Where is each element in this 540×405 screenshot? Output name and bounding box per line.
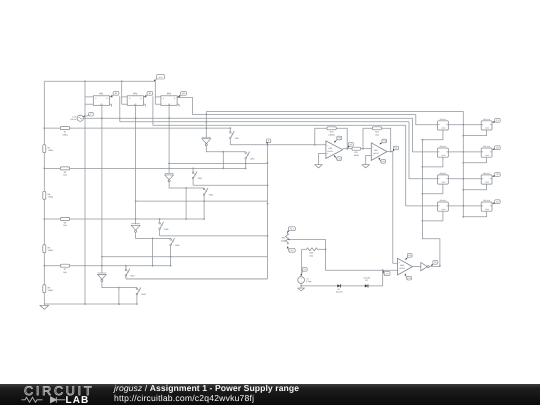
wire relay K1 bottom loop (422, 130, 443, 141)
wire block2 drop to next tap (185, 188, 187, 220)
wire relay K1 to K5 (448, 124, 481, 126)
flip-flop FF3 (161, 92, 177, 105)
tag pot top (287, 227, 295, 233)
wire SW1 out (230, 139, 267, 145)
svg-text:2 Vpp: 2 Vpp (306, 280, 311, 283)
svg-text:-15: -15 (382, 160, 385, 163)
relay K2 (438, 145, 449, 157)
resistor R4 (43, 191, 54, 199)
switch SW3 (192, 171, 202, 180)
wire pot wiper to comparator (291, 240, 398, 272)
wire OA1 + input (319, 154, 326, 164)
svg-text:2.49kΩ: 2.49kΩ (328, 133, 335, 136)
svg-text:Q1: Q1 (496, 119, 499, 122)
wire block4 drop to next tap (118, 288, 120, 305)
svg-text:1.8kΩ: 1.8kΩ (48, 149, 54, 152)
switch SW4 (203, 188, 213, 197)
wire relay K3 bottom loop (422, 184, 443, 195)
tag pot bottom (287, 246, 295, 252)
svg-text:B1: B1 (115, 92, 117, 95)
wire summing to OA1 inverting input (268, 144, 326, 146)
svg-text:RELAY4: RELAY4 (440, 199, 446, 202)
wire SW4 out (135, 195, 268, 219)
wire relay K8 bottom loop (462, 211, 486, 218)
tag OA3 V- (405, 274, 412, 280)
svg-text:B2: B2 (149, 92, 151, 95)
inverter X1 (202, 137, 211, 146)
svg-text:1.8kΩ: 1.8kΩ (48, 196, 54, 199)
wire tap at y=265.7 (43, 265, 171, 267)
wire relay K6 bottom loop (462, 157, 486, 164)
svg-text:1N4148: 1N4148 (363, 277, 370, 280)
resistor R7 (60, 264, 69, 274)
power tag +5V top (154, 75, 165, 82)
wire relay K2 bottom loop (422, 157, 443, 168)
resistor R22 (372, 127, 381, 137)
tag FF1 output (111, 92, 119, 97)
wire OA2 feedback right (382, 128, 392, 152)
voltage source V1 (298, 277, 311, 284)
svg-text:CLK: CLK (72, 115, 77, 118)
tag OA3 V+ (405, 254, 412, 260)
wire FF2 input drops (122, 81, 128, 104)
tag Vin (383, 271, 390, 276)
svg-text:A1: A1 (350, 143, 352, 146)
svg-text:LAB: LAB (66, 395, 90, 405)
wire tap at y=219.0 (43, 218, 205, 220)
svg-text:RELAY6: RELAY6 (483, 145, 489, 148)
wire FF2 tag drop (152, 96, 154, 125)
flip-flop FF2 (127, 92, 143, 105)
flip-flop FF1 (93, 92, 109, 105)
resistor R20 (327, 127, 336, 137)
wire block1 feed vertical (205, 112, 207, 138)
relay K5 (481, 118, 492, 130)
ground V1 (298, 287, 304, 291)
wire inverter X1 out (206, 146, 245, 153)
svg-text:RELAY7: RELAY7 (483, 172, 489, 175)
buffer U1 (421, 262, 430, 270)
relay K3 (438, 172, 449, 184)
ground OA1 (315, 164, 322, 168)
wire R21 to OA2 (361, 148, 372, 150)
wire long vertical x=85 (84, 81, 86, 304)
wire block1 drop to next tap (222, 152, 224, 170)
svg-text:-15: -15 (408, 277, 411, 280)
wire inverter X4 out (102, 282, 137, 289)
op-amp OA3 (398, 258, 413, 275)
svg-text:FF3: FF3 (167, 92, 172, 95)
relay K1 (438, 118, 449, 130)
relay K4 (438, 199, 449, 211)
svg-text:1.8kΩ: 1.8kΩ (48, 249, 54, 252)
svg-text:1kΩ: 1kΩ (309, 254, 313, 257)
wire FF3 Q feeder to bus L2 (177, 98, 206, 115)
wire FF1 input drops (85, 97, 93, 104)
tag relay K7 output (492, 173, 500, 177)
wire bus line L4 (120, 121, 409, 123)
wire summing bus vertical (267, 144, 269, 279)
svg-text:RELAY3: RELAY3 (440, 172, 446, 175)
resistor R8 (43, 285, 54, 293)
tag FF3 output (178, 92, 186, 97)
tag summing node (266, 139, 271, 144)
wire bus L1 right vertical (462, 111, 464, 216)
wire relay K4 bottom loop (422, 211, 443, 222)
tag relay K8 output (492, 200, 500, 204)
svg-text:B3: B3 (182, 92, 184, 95)
switch SW2 (245, 152, 255, 161)
wire bus line L1 (206, 111, 463, 113)
svg-text:Q4: Q4 (496, 200, 499, 203)
svg-text:+15: +15 (338, 137, 341, 140)
wire bus corner to relay row 4 (406, 125, 438, 206)
svg-text:100 Hz: 100 Hz (70, 118, 76, 121)
svg-text:+15: +15 (408, 254, 411, 257)
svg-text:10kΩ: 10kΩ (281, 239, 286, 242)
switch SW6 (170, 238, 180, 247)
wire relay K3 to K7 (448, 178, 481, 180)
wire FF3 Q stub (177, 97, 180, 107)
wire relay K4 to K8 (448, 205, 481, 207)
svg-text:RELAY2: RELAY2 (440, 145, 446, 148)
wire OA2 output down to comparator (387, 152, 398, 264)
wire SW2 out (168, 159, 267, 168)
wire SW5 out (160, 230, 268, 236)
wire relay collector to comparator feedback (422, 140, 440, 266)
resistor R6 (43, 245, 54, 253)
op-amp OA2 (371, 143, 387, 161)
switch SW7 (125, 269, 135, 278)
switch SW5 (159, 222, 169, 231)
tag OA2 V- (379, 158, 386, 164)
potentiometer R31 (281, 233, 291, 244)
tag comparator out (431, 261, 438, 266)
tag OA1 V+ (334, 136, 342, 142)
resistor R1 (60, 127, 69, 137)
relay K6 (481, 145, 492, 157)
inverter X3 (131, 224, 140, 233)
svg-text:http://circuitlab.com/c2q42wvk: http://circuitlab.com/c2q42wvku78fj (114, 393, 254, 403)
wire bus corner to relay row 1 (416, 115, 438, 125)
relay K8 (481, 199, 492, 211)
wire OA3 out to buffer (413, 266, 421, 268)
wire buffer out (429, 265, 441, 267)
svg-text:1kΩ: 1kΩ (63, 174, 67, 177)
wire tap stub to SW7 (125, 265, 127, 269)
svg-text:RELAY1: RELAY1 (440, 118, 446, 121)
wire relay K5 bottom loop (462, 130, 486, 137)
wire FF1 bottom vertical to block4 inverter (101, 105, 103, 273)
wire tap1 line from R1 (43, 127, 230, 129)
svg-text:RELAY8: RELAY8 (483, 199, 489, 202)
wire FF3 bottom vertical to block2 inverter (168, 105, 170, 173)
svg-text:1kΩ: 1kΩ (375, 133, 379, 136)
wire bottom rail (44, 303, 138, 305)
op-amp OA1 (326, 141, 343, 159)
wire tap at y=168.4 (43, 168, 246, 170)
svg-text:RELAY5: RELAY5 (483, 118, 489, 121)
ground OA2 (362, 164, 369, 168)
wire inverter X2 out (169, 182, 204, 189)
wire bus corner to relay row 2 (413, 118, 438, 152)
logo resistor-diode glyph (22, 397, 66, 403)
clock source CLK (70, 115, 83, 121)
svg-text:3.9kΩ: 3.9kΩ (62, 133, 68, 136)
wire SW3 out (193, 179, 267, 185)
svg-text:3.9kΩ: 3.9kΩ (48, 289, 54, 292)
tag relay K5 output (492, 119, 500, 123)
wire OA2 + input (366, 156, 372, 164)
wire top +5V rail (44, 80, 155, 82)
svg-text:FF2: FF2 (133, 92, 138, 95)
switch SW1 (230, 131, 240, 140)
wire FF2 Q stub (143, 97, 146, 107)
wire tap stub to SW5 (159, 218, 161, 222)
wire tap stub to SW1 (229, 127, 231, 131)
wire OA1 feedback left (315, 128, 327, 145)
wire SW6 out (101, 246, 268, 266)
wire bus corner to relay row 3 (409, 122, 438, 179)
svg-text:1kΩ: 1kΩ (63, 271, 67, 274)
tag CLK (83, 112, 93, 117)
svg-text:FF1: FF1 (99, 92, 104, 95)
svg-text:500Ω: 500Ω (354, 154, 359, 157)
ground ladder (40, 304, 49, 309)
wire FF1 Q stub (110, 97, 113, 107)
wire bus line L2 (205, 114, 415, 116)
wire left ladder rail (43, 81, 45, 304)
svg-text:V1: V1 (304, 268, 306, 271)
tag relay K6 output (492, 146, 500, 150)
svg-text:-15: -15 (338, 157, 341, 160)
svg-text:Vin: Vin (386, 272, 389, 275)
resistor R3 (60, 167, 69, 177)
resistor R30 zigzag (307, 248, 318, 258)
resistor R2 (43, 145, 54, 153)
tag FF2 output (144, 92, 152, 97)
tag OA1 out (348, 143, 354, 148)
tag OA2 out (393, 146, 399, 151)
resistor R21 (352, 147, 361, 157)
wire SW7 out (126, 276, 268, 279)
tag OA1 V- (334, 155, 342, 160)
tag V1 (301, 268, 308, 276)
svg-text:Q3: Q3 (496, 173, 499, 176)
wire OA1 output (343, 148, 352, 150)
wire R30 right (318, 248, 326, 250)
relay K7 (481, 172, 492, 184)
svg-text:jrogusz / Assignment 1 - Power: jrogusz / Assignment 1 - Power Supply ra… (113, 383, 299, 393)
svg-text:1N4148: 1N4148 (336, 291, 343, 294)
wire FF1 tag drop (119, 96, 121, 122)
wire R30 left (302, 249, 307, 275)
wire SW8 out (136, 295, 138, 304)
svg-text:1kΩ: 1kΩ (63, 224, 67, 227)
wire block4 out to bus (126, 278, 268, 280)
wire diodes to OA3 input (382, 270, 384, 286)
switch SW8 (136, 287, 146, 296)
wire block3 drop to next tap (152, 238, 154, 266)
footer bar (0, 384, 540, 405)
wire relay K2 to K6 (448, 151, 481, 153)
inverter X2 (165, 173, 174, 182)
wire inverter X3 out (136, 232, 171, 239)
wire relay K7 bottom loop (462, 184, 486, 191)
wire FF3 input drops (155, 81, 161, 104)
inverter X4 (98, 273, 107, 282)
resistor R5 (60, 218, 69, 228)
wire FF2 bottom vertical to block3 inverter (135, 105, 137, 224)
wire bus line L5 (153, 124, 406, 126)
diode D1 (336, 284, 343, 293)
wire OA2 feedback left (363, 128, 372, 148)
svg-text:Q2: Q2 (496, 146, 499, 149)
svg-text:+15: +15 (383, 140, 386, 143)
wire OA1 feedback right (336, 128, 348, 149)
diode D2 (363, 277, 370, 288)
wire tap stub to SW3 (192, 168, 194, 172)
wire V1 bottom to diodes (300, 283, 383, 286)
tag OA2 V+ (380, 139, 387, 144)
wire bus line L3 from CLK (83, 117, 412, 119)
